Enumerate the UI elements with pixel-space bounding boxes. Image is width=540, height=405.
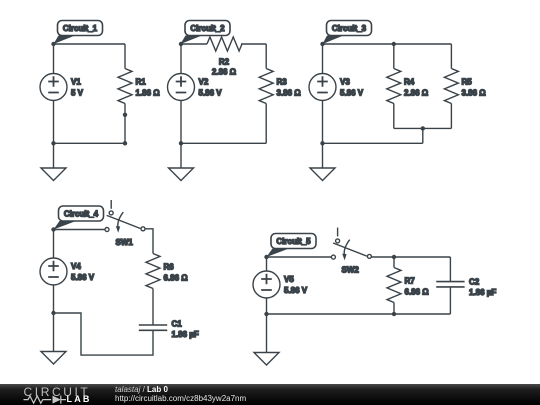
svg-text:R6: R6 — [164, 263, 175, 272]
svg-text:Circuit_4: Circuit_4 — [64, 210, 99, 219]
label Circuit_2 callout — [181, 21, 231, 45]
wire to ground c2 — [180, 143, 182, 168]
footer bar — [0, 384, 540, 405]
node dot top Circuit_3 — [320, 42, 324, 46]
wire V1 top lead — [53, 44, 55, 74]
wire R1 bottom — [124, 104, 126, 144]
label Circuit_3 callout — [323, 21, 372, 45]
wire C1 bottom to return c4 — [54, 313, 154, 355]
wire bottom rail c2 — [181, 142, 266, 144]
svg-text:V1: V1 — [71, 78, 81, 87]
ground c3 — [310, 168, 335, 181]
svg-text:talastaj / Lab 0: talastaj / Lab 0 — [115, 385, 168, 394]
svg-text:Circuit_5: Circuit_5 — [276, 237, 311, 246]
wire bottom rail c3 — [323, 142, 423, 144]
svg-text:5.86 V: 5.86 V — [340, 89, 364, 98]
node dot top Circuit_1 — [51, 42, 55, 46]
node dot R1 bottom terminal — [123, 113, 127, 117]
wire switch to R6 branch — [145, 229, 153, 254]
wire R3 bottom — [265, 104, 267, 144]
node dot bottom right c1 — [123, 141, 127, 145]
wire node to switch pole c4 — [54, 229, 106, 231]
resistor R3 — [259, 69, 301, 104]
svg-text:2.86 Ω: 2.86 Ω — [212, 68, 237, 77]
ground c2 — [169, 168, 194, 181]
ground c4 — [41, 352, 66, 365]
svg-text:V4: V4 — [71, 262, 81, 271]
wire node to R2 — [181, 43, 207, 45]
svg-text:LAB: LAB — [67, 394, 92, 404]
wire down from parallel c3 — [422, 128, 424, 143]
wire V5 bottom lead — [266, 298, 268, 314]
svg-text:V3: V3 — [340, 78, 350, 87]
label Circuit_5 callout — [267, 234, 317, 258]
resistor R7 — [387, 268, 429, 303]
svg-text:1.86 µF: 1.86 µF — [469, 288, 496, 297]
capacitor C1 — [139, 319, 199, 339]
wire R2 to corner — [241, 43, 266, 45]
node dot R7 top junction — [392, 255, 396, 259]
wire to ground c1 — [53, 143, 55, 168]
wire R7 bottom lead — [393, 303, 395, 315]
wire V2 top lead — [180, 44, 182, 74]
wire right vertical to R1 — [124, 44, 126, 69]
svg-text:R4: R4 — [404, 78, 415, 87]
node dot bottom left c2 — [179, 141, 183, 145]
node dot top Circuit_2 — [179, 42, 183, 46]
resistor R5 — [444, 69, 486, 104]
svg-text:5 V: 5 V — [71, 89, 84, 98]
wire top rail c3 — [323, 43, 452, 45]
wire R4 bottom lead — [393, 104, 395, 129]
svg-text:R2: R2 — [219, 58, 230, 67]
voltage source V1 — [40, 74, 84, 101]
capacitor C2 — [436, 277, 496, 297]
wire C2 bottom lead — [449, 287, 451, 314]
wire bottom rail c5 — [267, 313, 451, 315]
wire R4 top lead — [393, 44, 395, 69]
node dot parallel bottom c3 — [421, 126, 425, 130]
svg-text:C1: C1 — [172, 319, 183, 328]
svg-text:6.86 Ω: 6.86 Ω — [405, 288, 430, 297]
svg-text:5.86 V: 5.86 V — [284, 286, 308, 295]
svg-text:V2: V2 — [199, 78, 209, 87]
svg-text:Circuit_3: Circuit_3 — [332, 24, 367, 33]
wire V4 bottom lead — [53, 285, 55, 313]
node dot bottom left c5 — [264, 312, 268, 316]
voltage source V5 — [253, 271, 308, 298]
wire bottom rail c1 — [54, 142, 126, 144]
svg-text:R5: R5 — [462, 78, 473, 87]
resistor R6 — [146, 254, 188, 289]
node dot top Circuit_4 — [51, 227, 55, 231]
switch SW2 — [331, 228, 371, 275]
voltage source V3 — [309, 74, 364, 101]
svg-text:Circuit_1: Circuit_1 — [63, 24, 98, 33]
svg-text:SW1: SW1 — [116, 238, 134, 247]
svg-text:Circuit_2: Circuit_2 — [190, 24, 225, 33]
svg-text:1.86 µF: 1.86 µF — [172, 330, 199, 339]
wire to ground c5 — [266, 314, 268, 353]
ground c5 — [254, 353, 279, 366]
node dot V4 bottom c4 — [51, 311, 55, 315]
voltage source V2 — [168, 74, 223, 101]
wire V4 top lead — [53, 230, 55, 259]
label Circuit_1 callout — [54, 21, 103, 45]
node dot bottom left c1 — [51, 141, 55, 145]
wire right vertical to R3 — [265, 44, 267, 69]
wire V1 bottom lead — [53, 101, 55, 144]
wire R7 top lead — [393, 257, 395, 268]
switch SW1 — [105, 200, 145, 247]
svg-text:V5: V5 — [284, 275, 294, 284]
svg-text:3.86 Ω: 3.86 Ω — [462, 89, 487, 98]
wire V2 bottom lead — [180, 101, 182, 144]
svg-text:SW2: SW2 — [342, 265, 360, 274]
svg-text:1.86 Ω: 1.86 Ω — [136, 89, 161, 98]
wire to ground c3 — [322, 143, 324, 168]
wire V3 top lead — [322, 44, 324, 74]
resistor R2 — [207, 37, 242, 77]
svg-text:3.86 Ω: 3.86 Ω — [277, 89, 302, 98]
svg-text:http://circuitlab.com/cz8b43yw: http://circuitlab.com/cz8b43yw2a7nm — [115, 394, 247, 403]
svg-text:R1: R1 — [136, 78, 147, 87]
node dot R7 bottom junction — [392, 312, 396, 316]
wire to ground c4 — [53, 313, 55, 352]
svg-text:5.86 V: 5.86 V — [71, 273, 95, 282]
wire top rail c1 — [54, 43, 126, 45]
wire R5 top lead — [450, 44, 452, 69]
wire node to switch pole c5 — [267, 256, 332, 258]
svg-text:C2: C2 — [469, 277, 480, 286]
resistor R1 — [118, 69, 160, 104]
wire C2 top lead — [449, 257, 451, 282]
svg-text:R3: R3 — [277, 78, 288, 87]
voltage source V4 — [40, 258, 95, 285]
resistor R4 — [387, 69, 429, 104]
wire V3 bottom lead — [322, 101, 324, 144]
ground c1 — [41, 168, 66, 181]
wire R6 to C1 — [152, 289, 154, 326]
node dot top Circuit_5 — [264, 255, 268, 259]
label Circuit_4 callout — [54, 206, 104, 230]
node dot bottom left c3 — [320, 141, 324, 145]
node dot R4 top junction — [392, 42, 396, 46]
wire parallel bottom rail c3 — [394, 127, 452, 129]
footer logo schematic line resistor+diode — [24, 396, 67, 404]
wire switch to top rail right c5 — [371, 256, 450, 258]
wire V5 top lead — [266, 257, 268, 271]
svg-text:6.86 Ω: 6.86 Ω — [164, 274, 189, 283]
svg-text:5.86 V: 5.86 V — [199, 89, 223, 98]
svg-text:R7: R7 — [405, 277, 416, 286]
svg-text:2.86 Ω: 2.86 Ω — [404, 89, 429, 98]
wire R5 bottom lead — [450, 104, 452, 129]
